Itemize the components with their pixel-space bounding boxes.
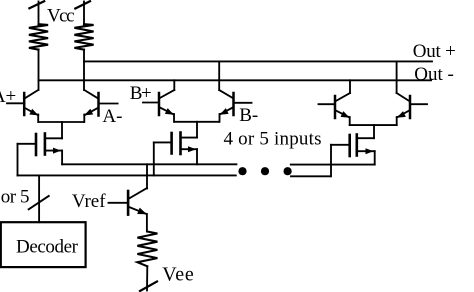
wire pair B tail tap — [196, 122, 198, 138]
wire Out- line — [39, 79, 432, 81]
transistor Q6 (nth input -) — [395, 61, 427, 125]
svg-text:4 or 5 inputs: 4 or 5 inputs — [224, 128, 322, 149]
wire Out+ line — [84, 60, 432, 62]
transistor Q7 current source (Vref) — [109, 188, 149, 232]
wire M1 gate drop — [17, 144, 19, 176]
wire resistor to Vee — [146, 266, 148, 290]
wire source rail right — [291, 164, 375, 166]
wire pair A emitter bar — [39, 121, 85, 123]
Vcc tick left — [29, 1, 44, 8]
wire M3 gate drop — [330, 145, 332, 177]
svg-text:or 5: or 5 — [1, 187, 30, 208]
wire gate bus left — [18, 174, 236, 176]
Vee tick — [140, 282, 157, 292]
wire left resistor to A+ collector — [38, 50, 40, 90]
wire decoder to gate bus — [38, 175, 40, 222]
transistor Q2 (A- input) — [83, 90, 118, 122]
bus slash 4 or 5 — [29, 196, 49, 209]
MOSFET M3 (select switch N) — [331, 135, 375, 157]
svg-text:Vref: Vref — [72, 191, 106, 212]
MOSFET M2 (select switch B) — [154, 133, 197, 155]
wire pair B emitter bar — [175, 121, 220, 123]
svg-text:Vcc: Vcc — [47, 6, 75, 27]
wire M3 source drop — [374, 151, 376, 164]
Vcc supply wire left — [38, 2, 40, 26]
wire M2 source drop — [196, 149, 198, 164]
resistor right load — [74, 24, 93, 49]
node ellipsis dot 2 — [261, 167, 269, 175]
wire source rail left — [62, 163, 236, 165]
transistor Q4 (B- input) — [218, 61, 251, 121]
MOSFET M1 (select switch A) — [18, 134, 63, 156]
wire M1 source drop — [61, 151, 63, 165]
wire pair A tail tap — [61, 122, 63, 138]
transistor Q3 (B+ input) — [143, 80, 175, 122]
svg-text:B-: B- — [239, 105, 258, 126]
svg-text:Vee: Vee — [162, 264, 194, 286]
wire source rail to current source collector — [146, 164, 148, 188]
wire right resistor to A- collector — [83, 50, 85, 90]
transistor Q5 (nth input +) — [319, 80, 352, 125]
wire pair N emitter bar — [350, 124, 397, 126]
decoder box — [1, 222, 86, 267]
svg-text:Out -: Out - — [414, 64, 454, 85]
resistor left load — [29, 24, 48, 49]
node ellipsis dot 1 — [238, 167, 246, 175]
svg-text:Decoder: Decoder — [16, 237, 79, 258]
svg-text:Out +: Out + — [413, 41, 456, 62]
svg-text:A+: A+ — [0, 86, 16, 107]
resistor tail (emitter degeneration) — [137, 232, 157, 267]
Vcc tick right — [75, 1, 90, 8]
transistor Q1 (A+ input) — [7, 90, 40, 122]
svg-text:A-: A- — [102, 106, 122, 127]
wire M2 gate drop — [153, 142, 155, 175]
wire gate bus right — [291, 175, 331, 177]
wire pair N tail tap — [373, 125, 375, 138]
Vcc supply wire right — [83, 2, 85, 26]
svg-text:B+: B+ — [130, 83, 152, 104]
node ellipsis dot 3 — [284, 167, 292, 175]
